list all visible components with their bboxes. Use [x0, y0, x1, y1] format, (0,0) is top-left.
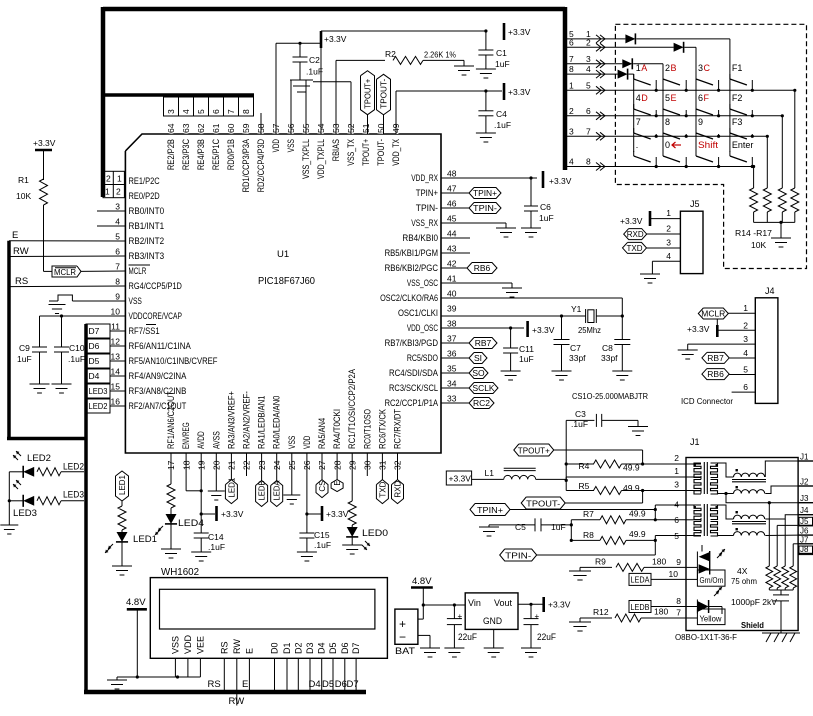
svg-text:ENVREG: ENVREG	[181, 422, 191, 449]
wire C8 branch	[621, 316, 623, 340]
svg-text:33pf: 33pf	[601, 353, 618, 363]
node TPOUT- label eth	[521, 491, 642, 510]
svg-text:39: 39	[447, 304, 457, 314]
wire LCD bottom bus	[84, 690, 366, 695]
svg-text:35: 35	[447, 364, 457, 374]
svg-text:12: 12	[111, 337, 121, 347]
wire LED3 row	[8, 472, 24, 525]
wire node X vertical	[565, 420, 568, 482]
svg-text:RB6: RB6	[474, 263, 491, 273]
wire keypad row1 + diode D row1	[565, 33, 730, 44]
svg-text:4: 4	[666, 251, 671, 261]
svg-text:5: 5	[674, 531, 679, 541]
ground R14-R17	[771, 238, 791, 247]
wire pin39 OSC1	[441, 314, 586, 317]
wire pin10 VDDCORE	[40, 314, 126, 347]
wire pin4 stub	[97, 225, 125, 227]
node RB6 label J4	[702, 369, 755, 380]
svg-text:22uF: 22uF	[458, 632, 477, 642]
ground pin41	[502, 288, 522, 297]
svg-text:VSS: VSS	[287, 436, 297, 449]
svg-text:E: E	[12, 230, 18, 241]
svg-text:R5: R5	[579, 481, 590, 491]
svg-text:F2: F2	[732, 93, 743, 103]
svg-text:10K: 10K	[751, 240, 766, 250]
svg-text:SI: SI	[474, 353, 482, 363]
svg-text:+3.3V: +3.3V	[687, 324, 710, 334]
svg-text:C11: C11	[519, 344, 534, 354]
wire J4 pin3 to ground	[688, 344, 756, 350]
capacitor C2 .1uF	[293, 43, 324, 80]
svg-text:RB5/KBI1/PGM: RB5/KBI1/PGM	[385, 248, 438, 258]
node TPIN+ label pin47	[441, 188, 501, 199]
ground C4	[476, 133, 496, 142]
svg-text:1: 1	[674, 466, 679, 476]
capacitor C14 .1uF	[194, 532, 225, 552]
svg-text:6: 6	[586, 106, 591, 116]
text LED3 name	[13, 508, 37, 519]
text Shield	[741, 620, 764, 630]
svg-text:RB2/INT2: RB2/INT2	[129, 236, 165, 246]
svg-text:16: 16	[111, 397, 121, 407]
svg-text:+3.3V: +3.3V	[549, 176, 572, 186]
pin numbers U1 bottom side	[166, 460, 403, 470]
svg-text:RS: RS	[15, 276, 28, 287]
wire keypad row5	[565, 89, 795, 91]
wire pin40 OSC2	[441, 298, 624, 318]
svg-text:R1: R1	[18, 175, 29, 185]
svg-text:RE3/P3C: RE3/P3C	[181, 139, 191, 171]
svg-text:5: 5	[665, 93, 670, 103]
svg-text:1: 1	[105, 187, 110, 197]
wire pin57 VDD to +3.3V	[276, 42, 321, 134]
svg-text:VSS: VSS	[129, 296, 142, 306]
svg-text:RD2/CCP4/P3D: RD2/CCP4/P3D	[256, 139, 266, 193]
power +3.3V at C1	[504, 23, 531, 40]
ground J4 pin3	[678, 350, 698, 359]
ground pin25 VSS	[283, 495, 300, 504]
svg-text:5: 5	[196, 109, 206, 114]
wire T1 connections	[686, 461, 798, 503]
pin names LCD	[170, 634, 361, 654]
svg-text:RF6/AN11/C1INA: RF6/AN11/C1INA	[129, 341, 191, 351]
svg-text:SO: SO	[472, 368, 485, 378]
svg-text:VSS: VSS	[170, 636, 180, 654]
power +3.3V box L1	[446, 471, 471, 485]
ground C1	[476, 69, 496, 78]
ground LCD	[107, 677, 127, 689]
power +3.3V pin19	[217, 506, 244, 521]
svg-text:F1: F1	[732, 63, 743, 73]
wire LCD bus upper-left horizontal	[103, 93, 254, 97]
svg-text:4: 4	[636, 93, 641, 103]
node MCLR label	[52, 266, 125, 277]
svg-text:63: 63	[181, 123, 191, 133]
svg-text:VSS_OSC: VSS_OSC	[407, 278, 439, 288]
svg-text:LED4: LED4	[178, 518, 204, 529]
svg-text:F3: F3	[732, 117, 743, 127]
svg-text:.1uF: .1uF	[494, 120, 511, 130]
ground R9	[569, 571, 591, 580]
node TPIN- label pin46	[441, 203, 501, 214]
node E label pin28	[331, 453, 343, 492]
svg-text:RB6/KBI2/PGC: RB6/KBI2/PGC	[385, 263, 439, 273]
svg-text:RS: RS	[219, 641, 229, 654]
svg-text:D5: D5	[322, 679, 334, 690]
wire LED1 chain	[121, 501, 123, 506]
svg-text:VDD_OSC: VDD_OSC	[407, 323, 439, 333]
svg-text:RBIAS: RBIAS	[331, 139, 341, 161]
svg-text:D4: D4	[309, 679, 321, 690]
svg-text:7: 7	[636, 117, 641, 127]
node label LED2 net	[63, 462, 84, 472]
svg-text:4: 4	[743, 348, 748, 358]
svg-text:0: 0	[665, 140, 670, 150]
pin numbers U1 right side	[447, 169, 457, 404]
ground C6	[521, 228, 541, 237]
svg-text:8: 8	[569, 64, 574, 74]
wire pin20 AVSS	[215, 453, 217, 491]
svg-text:O8BO-1X1T-36-F: O8BO-1X1T-36-F	[675, 632, 737, 642]
wire keypad bus rows numbers/chevrons	[569, 29, 605, 171]
svg-text:R4: R4	[579, 461, 590, 471]
svg-text:10K: 10K	[16, 191, 31, 201]
transformer T2	[694, 504, 767, 536]
power +3.3V pin38	[528, 321, 555, 337]
wire R12 row	[580, 618, 612, 622]
svg-text:RG4/CCP5/P1D: RG4/CCP5/P1D	[129, 281, 183, 291]
svg-text:60: 60	[226, 123, 236, 133]
svg-text:RW: RW	[229, 696, 245, 707]
svg-text:1uF: 1uF	[551, 522, 566, 532]
svg-text:7: 7	[676, 608, 681, 618]
svg-text:D5: D5	[328, 642, 338, 654]
svg-text:D: D	[641, 93, 648, 103]
resistor LED2 series	[37, 468, 84, 476]
ground C15	[297, 552, 317, 561]
svg-text:RA4/T0CKI: RA4/T0CKI	[332, 409, 342, 449]
ground LED2/LED3	[0, 525, 18, 534]
wire R9 row	[580, 567, 612, 571]
svg-text:4: 4	[586, 64, 591, 74]
wire LED0 to ground	[351, 537, 353, 545]
svg-text:10: 10	[669, 569, 679, 579]
svg-text:TPOUT+: TPOUT+	[361, 139, 371, 166]
svg-text:33: 33	[447, 394, 457, 404]
svg-text:LED1: LED1	[133, 534, 157, 545]
resistor R1 10K	[16, 175, 48, 205]
text 08B0 part number	[675, 632, 737, 642]
svg-text:RB0/INT0: RB0/INT0	[129, 206, 165, 216]
svg-text:RC4/SDI/SDA: RC4/SDI/SDA	[389, 368, 438, 378]
ground J5 pin4	[640, 274, 660, 283]
svg-text:75 ohm: 75 ohm	[731, 576, 757, 586]
wire MCLR to +3.3V J4	[717, 319, 755, 330]
resistor LED3 series	[37, 497, 84, 505]
svg-text:Shift: Shift	[698, 140, 719, 150]
wire pin53 RBIAS	[336, 60, 385, 134]
wire pin5 J1	[655, 531, 686, 541]
svg-text:8: 8	[241, 109, 251, 114]
svg-text:RC2: RC2	[473, 398, 490, 408]
svg-text:RA5/AN4: RA5/AN4	[317, 418, 327, 449]
connector J1 box	[686, 437, 798, 631]
svg-text:46: 46	[447, 199, 457, 209]
svg-text:TPOUT+: TPOUT+	[364, 78, 373, 108]
wire left module box	[7, 241, 87, 694]
node RS wire	[9, 276, 125, 287]
svg-text:RC1/T1OSI/CCP2/P2A: RC1/T1OSI/CCP2/P2A	[347, 369, 357, 449]
node TPOUT+ label eth	[514, 444, 643, 456]
svg-text:VSS: VSS	[286, 139, 296, 152]
wire pin41 VSS_OSC	[441, 283, 512, 288]
wire 75ohm bottom join	[769, 588, 793, 595]
svg-text:C9: C9	[19, 343, 30, 353]
wire pin30 stub	[366, 453, 368, 476]
svg-text:10: 10	[111, 307, 121, 317]
svg-text:Yellow: Yellow	[700, 615, 722, 624]
svg-text:6: 6	[698, 93, 703, 103]
resistor R8 49.9	[571, 529, 657, 544]
svg-text:LED2: LED2	[63, 462, 84, 472]
svg-text:Vin: Vin	[468, 598, 481, 608]
ground C8	[612, 371, 632, 380]
node SO label pin35	[441, 368, 488, 379]
svg-text:+3.3V: +3.3V	[221, 509, 244, 519]
svg-text:+: +	[535, 612, 540, 621]
power +3.3V J4	[687, 324, 717, 337]
svg-text:C1: C1	[496, 48, 507, 58]
svg-text:VSS_TX: VSS_TX	[346, 139, 356, 166]
capacitor C1 1uF	[478, 31, 509, 69]
switch keypad band 2 blades	[634, 104, 754, 117]
pin numbers U1 left side 3-16	[111, 202, 121, 407]
svg-text:.1uF: .1uF	[571, 419, 588, 429]
svg-text:2: 2	[665, 63, 670, 73]
svg-text:1: 1	[117, 174, 122, 184]
regulator Vin/Vout box	[465, 593, 518, 630]
connector LCD WH1602 box	[150, 567, 387, 658]
op-amp U1 PIC18F67J60 body	[125, 134, 441, 453]
svg-text:D3: D3	[305, 642, 315, 654]
svg-text:Vout: Vout	[494, 598, 513, 608]
svg-text:J5: J5	[800, 517, 809, 526]
svg-text:SCLK: SCLK	[473, 383, 495, 393]
resistor network 4X 75 ohm	[731, 566, 797, 588]
svg-text:VEE: VEE	[195, 636, 205, 654]
svg-text:2: 2	[743, 320, 748, 330]
svg-text:RC7/RX/DT: RC7/RX/DT	[393, 409, 403, 449]
text D4-D7 labels bottom	[309, 679, 359, 690]
svg-text:TPOUT-: TPOUT-	[376, 139, 386, 166]
node MCLR label J4	[698, 308, 755, 319]
wire LED1 to ground	[121, 542, 123, 566]
svg-text:J4: J4	[765, 286, 775, 296]
svg-text:E: E	[242, 679, 248, 690]
connector J4	[755, 286, 778, 403]
svg-text:1uF: 1uF	[495, 59, 510, 69]
ground shield hatched	[762, 633, 800, 642]
svg-text:25Mhz: 25Mhz	[578, 325, 601, 335]
connector top bus pin boxes 3-8	[164, 97, 254, 116]
svg-text:1: 1	[743, 303, 748, 313]
svg-text:D1: D1	[282, 642, 292, 654]
resistor R4 49.9	[566, 460, 642, 473]
capacitor C9 1uF	[17, 343, 47, 384]
wire resistor to LED4	[170, 508, 172, 514]
svg-text:RC5/SDO: RC5/SDO	[407, 353, 438, 363]
node CS label pin27	[316, 453, 328, 498]
svg-text:RF7/SS1: RF7/SS1	[129, 326, 160, 336]
LED Yellow	[686, 587, 725, 625]
svg-text:RB6: RB6	[707, 369, 724, 379]
svg-text:D4: D4	[89, 371, 100, 381]
svg-text:6: 6	[743, 382, 748, 392]
ground 22uF output	[521, 648, 541, 657]
svg-text:D2: D2	[293, 642, 303, 654]
power +3.3V pin26	[322, 506, 349, 521]
svg-text:4: 4	[674, 500, 679, 510]
svg-text:J2: J2	[800, 478, 809, 487]
svg-text:RE2/P2B: RE2/P2B	[166, 139, 176, 170]
svg-text:RD1/CCP3/P3A: RD1/CCP3/P3A	[241, 139, 251, 192]
connector left bus boxes D7-LED2	[86, 324, 125, 413]
svg-text:D7: D7	[89, 326, 100, 336]
wire LCD VSS/VDD/VEE	[117, 658, 200, 678]
svg-text:RD0/P1B: RD0/P1B	[226, 139, 236, 170]
svg-text:42: 42	[447, 259, 457, 269]
wire keypad dashed boundary	[615, 24, 806, 268]
ground LED1	[112, 566, 132, 575]
svg-text:D5: D5	[89, 356, 100, 366]
svg-text:U1: U1	[277, 249, 289, 260]
wire pin48 VDD_RX	[441, 176, 537, 179]
node label LED3 net	[63, 490, 84, 500]
svg-text:LED3: LED3	[63, 490, 84, 500]
capacitor 22uF output	[524, 604, 557, 648]
resistor R7 49.9	[571, 509, 657, 524]
power +3.3V J5	[620, 211, 650, 226]
svg-text:RE0/P2D: RE0/P2D	[129, 191, 161, 201]
svg-text:AVSS: AVSS	[211, 431, 221, 449]
wire pin49 VDD_TX to +3.3V	[396, 89, 502, 134]
svg-text:61: 61	[211, 123, 221, 133]
svg-text:48: 48	[447, 169, 457, 179]
inductor L1	[472, 468, 567, 479]
svg-text:WH1602: WH1602	[161, 567, 199, 578]
svg-text:+: +	[458, 612, 463, 621]
svg-text:OSC2/CLKO/RA6: OSC2/CLKO/RA6	[380, 293, 438, 303]
svg-text:RXD: RXD	[627, 230, 644, 239]
svg-text:Enter: Enter	[732, 140, 754, 150]
svg-text:38: 38	[447, 319, 457, 329]
pin numbers J4	[743, 303, 748, 392]
svg-text:R9: R9	[595, 557, 606, 567]
svg-text:1: 1	[666, 208, 671, 218]
pin names U1 top side	[166, 139, 401, 193]
svg-text:LED1: LED1	[118, 474, 127, 495]
svg-text:TPIN+: TPIN+	[473, 189, 497, 198]
wire BAT+ to Vin	[418, 603, 465, 619]
svg-text:RE1/P2C: RE1/P2C	[129, 176, 161, 186]
svg-text:59: 59	[241, 123, 251, 133]
svg-text:LED3: LED3	[89, 386, 108, 396]
svg-text:1uF: 1uF	[539, 213, 554, 223]
pin numbers U1 top side	[166, 123, 401, 133]
svg-text:LEDB: LEDB	[258, 481, 267, 501]
pin names U1 bottom side	[166, 369, 403, 449]
svg-text:8: 8	[665, 117, 670, 127]
svg-text:R8: R8	[583, 530, 594, 540]
node LEDB box	[629, 596, 686, 613]
svg-text:TPOUT-: TPOUT-	[380, 78, 389, 108]
switch keypad band 3 blades	[634, 128, 754, 139]
power +3.3V regulator	[544, 597, 571, 612]
text LED2 name	[27, 453, 51, 464]
node LED1 label standalone	[116, 471, 129, 501]
svg-text:+3.3V: +3.3V	[33, 138, 56, 148]
svg-text:3: 3	[698, 63, 703, 73]
svg-text:49.9: 49.9	[629, 529, 646, 539]
svg-text:VDD_TX: VDD_TX	[391, 139, 401, 166]
svg-text:3: 3	[743, 334, 748, 344]
connector J1-J8 stub lines	[798, 453, 813, 555]
node LEDA label pin24	[271, 453, 283, 507]
wire R7/R8 node vertical	[570, 520, 573, 542]
svg-text:R7: R7	[583, 509, 594, 519]
wire GND regulator	[493, 629, 495, 648]
wire Vout to +3.3V	[518, 603, 544, 606]
text ICD Connector	[681, 396, 733, 406]
svg-text:2: 2	[116, 187, 121, 197]
wire keypad row3 + diode D row3	[565, 58, 663, 69]
node TPOUT- label	[377, 74, 391, 134]
crystal Y1 25Mhz	[571, 304, 622, 335]
capacitor 22uF input	[447, 605, 478, 648]
node RXD label pin32	[392, 453, 404, 504]
svg-text:GND: GND	[483, 616, 502, 627]
svg-text:43: 43	[447, 244, 457, 254]
wire R14-R17 bottom join	[754, 212, 795, 238]
svg-text:RW: RW	[232, 639, 242, 654]
svg-text:9: 9	[115, 292, 120, 302]
wire R1 to MCLR	[44, 205, 53, 271]
wire pin25 VSS	[291, 453, 293, 495]
svg-text:2.26K 1%: 2.26K 1%	[424, 50, 456, 60]
LED Grn/Orn bicolor	[686, 545, 725, 586]
svg-text:2: 2	[666, 224, 671, 234]
svg-text:9: 9	[676, 557, 681, 567]
node RB6 label pin42	[441, 263, 497, 274]
svg-text:Grn/Orn: Grn/Orn	[700, 576, 724, 585]
svg-text:RC2/CCP1/P1A: RC2/CCP1/P1A	[385, 398, 438, 408]
svg-text:RF3/AN8/C2INB: RF3/AN8/C2INB	[129, 386, 187, 396]
ground R12	[569, 622, 591, 631]
svg-text:A: A	[641, 63, 647, 73]
svg-text:MCLR: MCLR	[54, 267, 76, 277]
svg-text:C3: C3	[575, 409, 586, 419]
svg-text:180: 180	[654, 607, 668, 617]
svg-text:C2: C2	[309, 55, 320, 65]
node TXD label pin31	[376, 453, 388, 504]
text keypad band 4 labels	[636, 140, 754, 150]
node RW wire	[9, 246, 125, 257]
svg-text:E: E	[244, 648, 254, 654]
wire pin54 VDD_TXPLL	[320, 48, 322, 134]
wire pin45 VSS_RX	[441, 223, 506, 228]
ground pin20 AVSS	[208, 491, 225, 500]
svg-text:RB7: RB7	[707, 353, 724, 363]
